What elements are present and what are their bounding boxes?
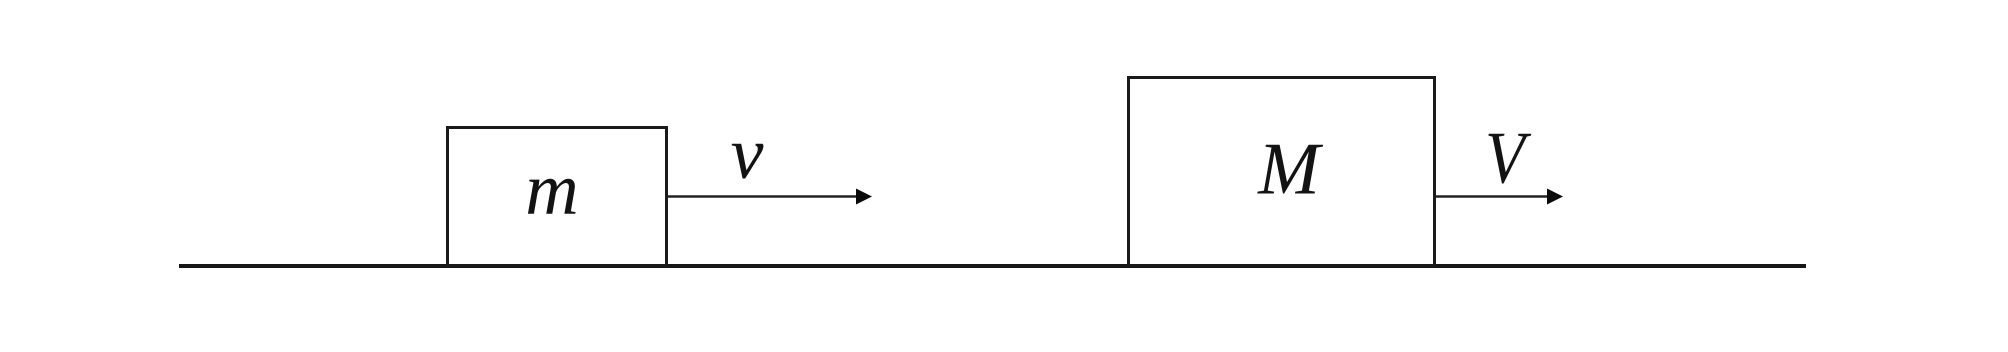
- svg-text:v: v: [731, 113, 764, 195]
- svg-text:V: V: [1485, 118, 1532, 200]
- svg-text:M: M: [1257, 129, 1324, 211]
- svg-text:m: m: [525, 149, 578, 231]
